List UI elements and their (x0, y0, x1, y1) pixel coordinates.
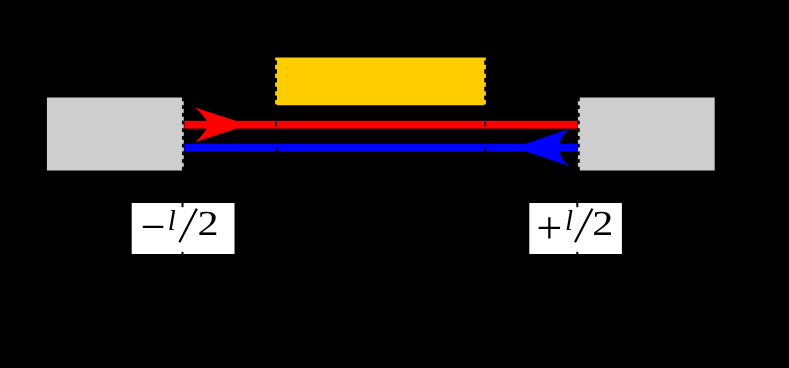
tick dash top of +l/2 box (576, 203, 578, 207)
blue arrowhead (514, 129, 568, 165)
label +l/2 : slash (575, 209, 592, 243)
svg-text:2: 2 (592, 206, 613, 244)
dashed gate edge right (484, 58, 486, 153)
gate electrode (yellow) (275, 58, 486, 106)
svg-text:+: + (536, 202, 562, 253)
red arrowhead (195, 108, 248, 143)
dashed boundary +l/2 over right contact edge (578, 98, 580, 171)
tick dash top of -l/2 box (182, 203, 184, 207)
tick dash bottom of +l/2 box (576, 252, 578, 254)
dashed gate edge left (275, 58, 277, 153)
blue channel (left-mover) (184, 144, 577, 152)
label box +l/2 (529, 203, 622, 254)
svg-text:l: l (168, 205, 176, 237)
label -l/2 : slash (179, 209, 196, 243)
dashed boundary -l/2 over left contact edge (182, 98, 184, 171)
label box -l/2 (132, 203, 235, 254)
svg-text:l: l (565, 205, 573, 237)
left contact (gray) (47, 98, 184, 171)
right contact (gray) (578, 98, 715, 171)
svg-text:−: − (141, 203, 166, 252)
svg-text:2: 2 (198, 206, 219, 244)
red channel (right-mover) (184, 121, 577, 129)
tick dash bottom of -l/2 box (182, 252, 184, 254)
